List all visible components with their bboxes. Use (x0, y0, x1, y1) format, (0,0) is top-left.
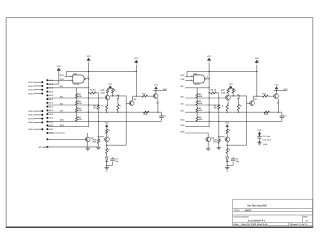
wire input row y105.0 (65, 104, 99, 106)
svg-text:PA7-1: PA7-1 (28, 117, 34, 120)
wire row y133 corner (207, 133, 209, 137)
wire upper gate input riser (186, 71, 188, 76)
svg-text:A: A (306, 220, 308, 223)
wire top rail y71.4 (67, 70, 137, 72)
resistor R18 (106, 148, 108, 153)
wire base branch y136.8 (98, 136, 104, 138)
capacitor C1 (160, 112, 162, 116)
resistor R8' horizontal at bus (209, 92, 211, 94)
wire split header (230, 87, 232, 90)
transistor Q5' (206, 137, 211, 142)
svg-text:74LS00: 74LS00 (194, 83, 200, 86)
wire vertical bus (88, 63, 90, 127)
svg-text:74LS00: 74LS00 (73, 83, 79, 86)
resistor R10 (97, 139, 99, 144)
svg-text:VCC: VCC (225, 121, 230, 124)
resistor R3' ladder (196, 98, 198, 100)
resistor R9 (97, 105, 99, 110)
wire input row y87.8 (185, 87, 209, 89)
svg-text:M980C: M980C (245, 209, 252, 212)
svg-text:CLK: CLK (60, 78, 65, 81)
svg-text:VCC: VCC (257, 129, 262, 132)
wire out row y90.6 (274, 90, 288, 92)
resistor R2' ladder (196, 88, 198, 94)
transistor Q3' (274, 94, 279, 99)
wire gate output (206, 78, 209, 80)
diode D1' (226, 157, 229, 162)
svg-text:A14-G: A14-G (49, 128, 54, 131)
wire pin17 ground feed (47, 146, 98, 148)
ground (86, 147, 90, 149)
wire emitter tap (107, 164, 113, 166)
resistor R17 (106, 129, 108, 134)
ground (96, 146, 100, 148)
resistor R12' (232, 89, 234, 93)
resistor R9' (218, 105, 220, 110)
wire input row y105.0 (185, 104, 219, 106)
svg-text:10K: 10K (78, 102, 82, 105)
svg-text:PA4-1: PA4-1 (28, 92, 34, 95)
wire out row y90.6 (153, 90, 167, 92)
svg-text:TTL2+: TTL2+ (234, 209, 241, 212)
wire connector feeds (47, 79, 65, 81)
wire feedback top y95.9 (231, 95, 247, 97)
svg-text:VCC: VCC (275, 84, 280, 87)
wire split header (109, 87, 111, 90)
wire input row y121.3 (185, 120, 282, 122)
ground (225, 167, 229, 169)
svg-text:PA2-1: PA2-1 (28, 85, 34, 88)
wire collector row y96.2 (253, 95, 262, 97)
transistor Q2 (129, 101, 134, 106)
transistor Q4' (225, 137, 230, 142)
wire feedback loop (125, 104, 127, 146)
op-amp gate U1' NAND (193, 75, 204, 83)
svg-text:A7-G: A7-G (49, 102, 54, 105)
connector J1 pin column left (41, 81, 43, 83)
svg-text:GND: GND (263, 143, 268, 146)
wire gate output (86, 78, 89, 80)
resistor R11 (107, 89, 109, 93)
svg-text:C10 10uF: C10 10uF (263, 138, 272, 141)
resistor R14' horizontal (263, 95, 269, 97)
transistor Q1' (226, 95, 231, 100)
wire column x98.3 (218, 93, 220, 105)
svg-text:VCC: VCC (134, 57, 139, 60)
wire emitter drop (277, 98, 280, 99)
svg-text:OSC: OSC (180, 119, 185, 122)
svg-text:VCC: VCC (229, 83, 234, 86)
svg-text:U1A: U1A (194, 72, 199, 75)
svg-text:May 08, 2003 Wed 8:45: May 08, 2003 Wed 8:45 (242, 223, 269, 226)
wire vertical bus (208, 63, 210, 127)
ground (257, 142, 261, 144)
resistor R17' (226, 129, 228, 134)
resistor R5' ladder (196, 112, 198, 117)
svg-text:A8-G: A8-G (49, 105, 54, 108)
svg-text:A3-G: A3-G (49, 87, 54, 90)
wire VCC drop x136 (256, 65, 258, 97)
wire input row y126.7 (65, 126, 89, 128)
wire input row y98.0 (185, 97, 225, 99)
wire input row y112.2 (65, 111, 162, 113)
svg-text:10K: 10K (199, 109, 203, 112)
svg-text:CLK: CLK (180, 78, 185, 81)
wire gate input pin 2 (185, 79, 193, 81)
svg-text:A12-G: A12-G (49, 120, 54, 123)
svg-text:Date:: Date: (234, 223, 240, 226)
svg-text:A5-G: A5-G (49, 94, 54, 97)
svg-text:A-SCHEMAT-0-1: A-SCHEMAT-0-1 (248, 219, 266, 222)
svg-text:10K: 10K (78, 118, 82, 121)
svg-text:Document Number:: Document Number: (234, 216, 250, 219)
wire feedback top y95.9 (110, 95, 126, 97)
resistor R13 (106, 105, 108, 111)
svg-text:PA5-1: PA5-1 (28, 110, 34, 113)
svg-text:VCC: VCC (57, 65, 62, 68)
capacitor C2' (231, 158, 235, 160)
wire upper gate input riser (66, 71, 68, 76)
wire input row y112.2 (185, 111, 282, 113)
svg-text:TRG: TRG (180, 130, 185, 133)
wire input row y121.3 (65, 120, 162, 122)
svg-text:C9 .1uF: C9 .1uF (263, 135, 272, 138)
wire pin2 VCC tie (47, 83, 58, 85)
capacitor C1' (281, 112, 283, 116)
resistor R16 bracket x117.9 (117, 95, 119, 99)
resistor R10' (218, 139, 220, 144)
svg-text:PA9-1: PA9-1 (28, 128, 34, 131)
diode D1 (105, 157, 108, 162)
svg-text:VCC: VCC (105, 121, 110, 124)
ground (206, 147, 210, 149)
svg-text:PA1-1: PA1-1 (28, 81, 34, 84)
svg-text:A4-G: A4-G (49, 90, 54, 93)
wire feedback loop (246, 104, 248, 146)
svg-text:U1A: U1A (73, 72, 78, 75)
wire emitter tap (227, 164, 233, 166)
title block (233, 199, 313, 226)
svg-text:VCC: VCC (108, 83, 113, 86)
wire collector up (275, 91, 277, 94)
transistor Q3 (153, 94, 158, 99)
capacitor C9 bypass (257, 136, 261, 138)
svg-text:Sheet 1 of 1: Sheet 1 of 1 (290, 223, 308, 226)
wire column x98.3 (97, 93, 99, 105)
resistor R13' (226, 105, 228, 111)
op-amp gate U1 NAND (73, 75, 84, 83)
border frame (6, 18, 313, 227)
resistor R11' (227, 89, 229, 93)
connector J1 pin column right (46, 79, 48, 81)
transistor Q2' (250, 101, 255, 106)
wire input row y87.8 (65, 87, 89, 89)
wire emitter drop (156, 98, 159, 99)
svg-text:10K: 10K (78, 109, 82, 112)
svg-text:VCC: VCC (255, 57, 260, 60)
svg-text:4148: 4148 (221, 91, 225, 94)
wire gate input pin 1 (185, 76, 193, 78)
svg-text:PA8-1: PA8-1 (28, 121, 34, 124)
node bus junctions (209, 71, 210, 72)
ground (105, 167, 109, 169)
wire row y133 corner (87, 133, 89, 137)
resistor R4 ladder (76, 105, 78, 108)
svg-text:10K: 10K (199, 95, 203, 98)
wire input row y98.0 (65, 97, 105, 99)
resistor R4' ladder (196, 105, 198, 108)
resistor R18' (226, 148, 228, 153)
resistor R15 on row y112.2 (144, 111, 150, 113)
svg-text:10K: 10K (78, 95, 82, 98)
wire gate input pin 1 (65, 76, 73, 78)
wire right row y133 (185, 132, 208, 134)
svg-text:PA6-1: PA6-1 (28, 114, 34, 117)
svg-text:A6-G: A6-G (49, 98, 54, 101)
svg-text:AT-CON1: AT-CON1 (39, 146, 49, 149)
wire base branch y136.8 (219, 136, 225, 138)
svg-text:A11-G: A11-G (49, 117, 54, 120)
svg-text:VCC: VCC (154, 84, 159, 87)
resistor R2 ladder (76, 88, 78, 94)
resistor R14 horizontal (142, 95, 148, 97)
svg-text:10K: 10K (199, 102, 203, 105)
node bus junctions (88, 71, 89, 72)
wire collector row y96.2 (133, 95, 142, 97)
resistor R5 ladder (76, 112, 78, 117)
svg-text:One Shot Delay MAG: One Shot Delay MAG (247, 203, 267, 207)
svg-text:PA3-1: PA3-1 (28, 89, 34, 92)
svg-text:A9-G: A9-G (49, 109, 54, 112)
wire gate input pin 2 (65, 79, 73, 81)
wire top rail y71.4 (187, 70, 257, 72)
resistor R8 horizontal at bus (89, 92, 91, 94)
svg-text:VCC: VCC (207, 55, 212, 58)
svg-text:A10-G: A10-G (49, 113, 54, 116)
svg-text:4148: 4148 (100, 91, 104, 94)
svg-text:VCC: VCC (86, 55, 91, 58)
transistor Q1 (105, 95, 110, 100)
resistor R16' bracket x117.9 (237, 95, 239, 99)
wire input row y126.7 (185, 126, 209, 128)
transistor Q4 (105, 137, 110, 142)
wire collector up (155, 91, 157, 94)
transistor Q5 (85, 137, 90, 142)
svg-text:OSC: OSC (60, 119, 65, 122)
resistor R12 (112, 89, 114, 93)
wire VCC drop x136 (135, 65, 137, 97)
svg-text:REV:: REV: (303, 215, 308, 218)
ground (217, 146, 221, 148)
resistor R3 ladder (76, 98, 78, 100)
resistor R15' on row y112.2 (264, 111, 270, 113)
capacitor C2 (110, 158, 114, 160)
wire pin16 base feed (47, 138, 85, 140)
svg-text:10K: 10K (199, 118, 203, 121)
